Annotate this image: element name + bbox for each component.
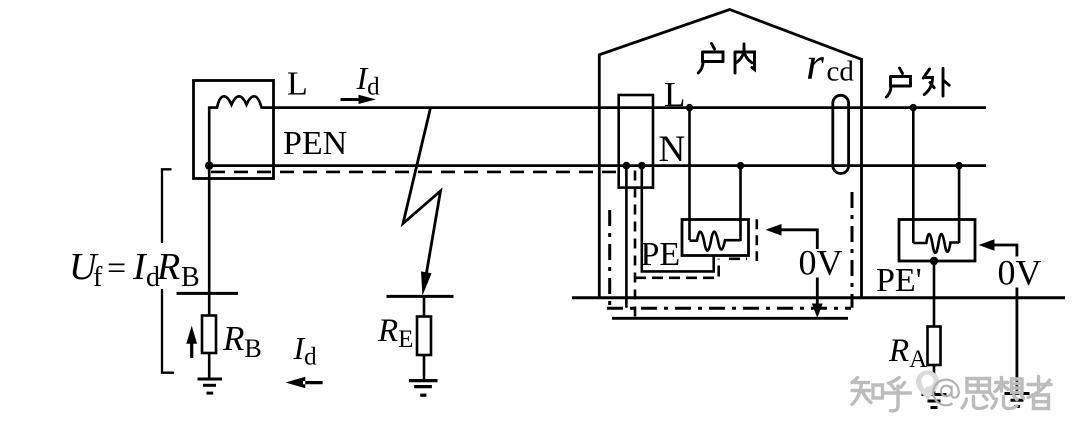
ground RE <box>409 381 438 396</box>
svg-text:0V: 0V <box>998 253 1042 293</box>
node junction 2 <box>638 162 646 170</box>
bracket Uf <box>162 169 174 372</box>
svg-text:N: N <box>659 129 686 170</box>
wire RE lead top <box>423 296 426 317</box>
ground 0V outdoor <box>1005 394 1030 407</box>
node junction 1 <box>623 162 631 170</box>
transformer box <box>194 81 274 179</box>
watermark @ <box>933 380 959 406</box>
svg-text:PE: PE <box>641 236 681 273</box>
node L indoor <box>686 104 693 111</box>
house outline <box>599 10 861 298</box>
svg-text:r: r <box>806 38 825 89</box>
node PE' <box>930 257 938 265</box>
earth surface bar at RB <box>177 292 239 295</box>
bottom equipotential bar <box>612 317 848 320</box>
node N indoor <box>737 162 744 169</box>
fault bolt <box>403 108 441 274</box>
watermark zhihu pin logo <box>916 371 939 400</box>
svg-text:RA: RA <box>888 333 927 373</box>
arrow Uf direction (up) <box>186 326 197 358</box>
appliance box indoor <box>682 220 749 256</box>
CT loop r_cd <box>833 95 849 173</box>
earth surface bar at RE <box>387 295 454 298</box>
wire RA lead bottom <box>933 365 936 396</box>
arrow 0V indoor <box>778 230 817 306</box>
resistor RB <box>202 316 216 354</box>
watermark 知乎@思想者 <box>852 377 1051 411</box>
wire PE conductor solid <box>626 166 713 308</box>
current arrow Id bottom <box>286 377 323 389</box>
wire PEN dashed <box>211 171 616 174</box>
node L outdoor <box>910 104 917 111</box>
ground RB <box>198 379 223 393</box>
svg-text:Id: Id <box>356 60 381 101</box>
label Uf = Id RB <box>69 246 200 293</box>
resistor RA <box>928 327 941 366</box>
node PEN origin <box>205 161 213 169</box>
svg-text:0V: 0V <box>799 243 843 283</box>
transformer coil <box>209 96 263 165</box>
heating element outdoor <box>913 234 959 253</box>
svg-text:R: R <box>156 246 180 288</box>
dashed enclosure right indoor <box>755 219 758 261</box>
label 户外 <box>886 68 949 97</box>
svg-text:cd: cd <box>827 56 855 88</box>
arrow 0V outdoor <box>989 245 1017 392</box>
wire N drop indoor <box>739 166 742 241</box>
svg-text:f: f <box>93 262 103 293</box>
wire L drop indoor <box>688 108 691 240</box>
svg-text:PE': PE' <box>876 262 922 299</box>
PE ring dash-dot <box>607 192 852 308</box>
svg-text:L: L <box>287 66 308 103</box>
appliance box outdoor <box>899 220 975 262</box>
junction box <box>619 95 653 188</box>
wire RA conductor <box>933 261 936 327</box>
label 户内 <box>698 44 754 74</box>
wire L line <box>264 106 987 109</box>
wire PE conductor dashed <box>634 171 637 319</box>
node N outdoor <box>955 162 962 169</box>
wire RE lead bottom <box>423 355 426 381</box>
svg-text:PEN: PEN <box>283 125 347 162</box>
svg-text:Id: Id <box>293 330 318 371</box>
ground RA <box>922 395 947 408</box>
heating element indoor <box>690 232 741 251</box>
svg-text:RE: RE <box>377 313 413 353</box>
svg-text:=: = <box>107 250 126 287</box>
svg-text:B: B <box>181 262 200 293</box>
wire PEN solid <box>209 164 986 167</box>
svg-text:RB: RB <box>222 319 262 363</box>
floor line <box>572 296 1065 299</box>
wire N drop outdoor <box>958 166 961 243</box>
wire RB lead <box>208 353 211 379</box>
wire L drop outdoor <box>912 108 915 243</box>
wire RB conductor <box>208 166 211 316</box>
svg-text:L: L <box>664 75 685 114</box>
current arrow Id top <box>341 95 376 104</box>
resistor RE <box>417 317 431 356</box>
